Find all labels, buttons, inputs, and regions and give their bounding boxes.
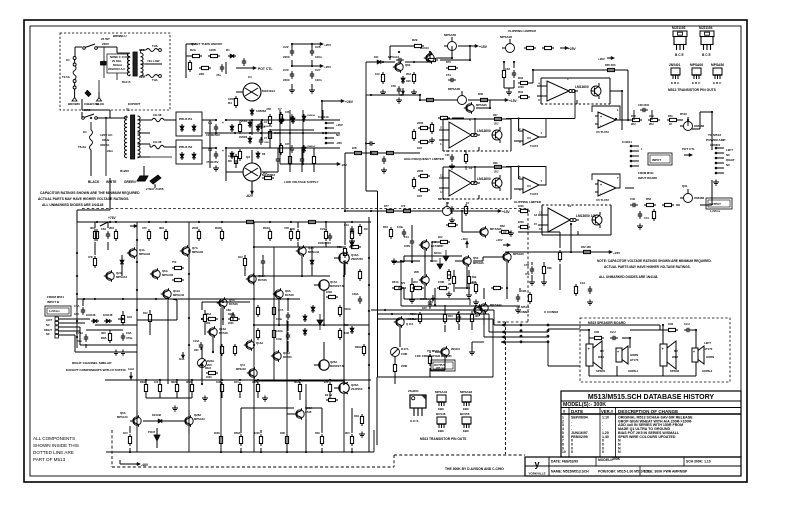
svg-text:NOTE: CAPACITOR VOLTAGE RATING: NOTE: CAPACITOR VOLTAGE RATINGS SHOWN AR… xyxy=(597,259,712,263)
lv right caps bot xyxy=(279,143,315,155)
svg-text:C2B: C2B xyxy=(521,289,526,293)
conn wire NC1 xyxy=(489,331,548,334)
pinouts caption xyxy=(668,88,717,92)
svg-text:R70: R70 xyxy=(446,60,451,64)
svg-text:2000: 2000 xyxy=(228,322,234,325)
svg-text:Q6A: Q6A xyxy=(162,269,168,273)
PSU filter cap C1 xyxy=(206,121,220,137)
svg-text:C38 2200: C38 2200 xyxy=(638,103,650,107)
input stage extra1 xyxy=(443,305,480,332)
chassis bond xyxy=(146,175,164,191)
svg-text:R62: R62 xyxy=(500,224,505,228)
svg-text:1N5: 1N5 xyxy=(406,79,411,83)
front misc xyxy=(429,100,490,143)
svg-text:MPSA06: MPSA06 xyxy=(476,103,487,107)
svg-text:2000: 2000 xyxy=(206,376,212,379)
svg-text:100: 100 xyxy=(375,72,380,76)
amp input bus xyxy=(77,298,300,300)
svg-text:G D S: G D S xyxy=(410,419,419,423)
speaker wiring xyxy=(580,325,696,376)
svg-text:LEFT: LEFT xyxy=(726,148,733,152)
right branch bus xyxy=(462,211,562,290)
right opamp B TL072 xyxy=(592,174,620,202)
svg-text:R31A: R31A xyxy=(410,312,417,316)
svg-text:2200: 2200 xyxy=(283,78,290,82)
PSU filter cap C2 xyxy=(206,148,218,164)
title block outline xyxy=(525,457,741,476)
svg-text:YORKVILLE: YORKVILLE xyxy=(528,472,545,476)
svg-text:Q11A: Q11A xyxy=(173,289,180,293)
fuse F2 zigzag xyxy=(78,117,93,176)
front Q61 transistor xyxy=(420,46,434,64)
amp diode pair xyxy=(86,313,113,323)
svg-text:1000: 1000 xyxy=(264,142,270,144)
svg-text:Q 114: Q 114 xyxy=(406,322,414,326)
clip lim Q21 xyxy=(500,35,515,53)
svg-text:BC546: BC546 xyxy=(285,293,294,297)
svg-text:BA5C1: BA5C1 xyxy=(430,260,438,263)
clip lim +15V arrow xyxy=(458,44,488,49)
clip limiter 2 label xyxy=(514,200,542,204)
svg-text:1K2: 1K2 xyxy=(238,255,243,259)
hf2 fb resistor xyxy=(474,162,506,183)
svg-text:100n: 100n xyxy=(315,78,322,82)
transformer T1 labels xyxy=(100,108,130,173)
hf limiter input transistor Q22 xyxy=(448,87,467,105)
svg-text:MPSA06: MPSA06 xyxy=(473,261,484,265)
svg-text:R51A: R51A xyxy=(392,280,399,284)
svg-text:MOSFET B: MOSFET B xyxy=(330,284,344,288)
svg-text:R6: R6 xyxy=(228,159,232,163)
transistor Q3A xyxy=(296,245,320,256)
svg-text:C CONN3: C CONN3 xyxy=(544,310,558,314)
hf mid rail parts xyxy=(384,204,413,213)
svg-text:230/240V A.C: 230/240V A.C xyxy=(108,67,125,71)
svg-text:2200: 2200 xyxy=(283,55,290,59)
LV supply components row xyxy=(266,107,295,126)
svg-text:ACTUAL PARTS MAY HAVE HIGHER V: ACTUAL PARTS MAY HAVE HIGHER VOLTAGE RAT… xyxy=(38,197,129,201)
svg-text:180: 180 xyxy=(74,312,79,316)
m513 boundary vertical xyxy=(505,322,507,454)
amp out bus y310 xyxy=(371,309,494,311)
speaker board title xyxy=(588,321,626,325)
svg-text:C40: C40 xyxy=(630,197,636,201)
svg-text:17: 17 xyxy=(539,211,543,215)
svg-text:R26A: R26A xyxy=(205,313,211,316)
amp gnds mid xyxy=(113,350,126,356)
svg-text:100/25V: 100/25V xyxy=(264,126,273,128)
svg-text:1N4148: 1N4148 xyxy=(103,313,113,317)
transistor Q4A xyxy=(127,247,151,258)
amp top row caps xyxy=(318,227,354,245)
svg-text:230V: 230V xyxy=(102,42,109,46)
svg-text:+26V: +26V xyxy=(336,123,343,127)
svg-text:300K: 300K xyxy=(612,457,621,461)
svg-text:PBU4 B2: PBU4 B2 xyxy=(179,145,192,149)
mov block xyxy=(101,60,107,78)
svg-text:10R: 10R xyxy=(344,331,349,335)
package TO-247 2SJ/2SK xyxy=(408,389,426,423)
svg-text:R35 2K3: R35 2K3 xyxy=(605,63,616,67)
svg-text:SPKR WIRE COLOURS UPDATED: SPKR WIRE COLOURS UPDATED xyxy=(618,435,676,439)
database history table outer xyxy=(561,391,741,457)
svg-text:R49: R49 xyxy=(354,414,359,418)
right B wires xyxy=(625,180,712,205)
rail caps grounds xyxy=(289,44,315,93)
svg-text:R 27A: R 27A xyxy=(401,347,409,351)
svg-text:OUTPUT: OUTPUT xyxy=(709,202,721,206)
svg-text:R38: R38 xyxy=(493,162,498,165)
svg-text:2K0: 2K0 xyxy=(109,226,115,230)
amp extra parts 1 xyxy=(88,220,328,324)
svg-text:1K0: 1K0 xyxy=(123,431,128,435)
bridge rectifier B2 box xyxy=(176,140,202,164)
svg-text:U5 TL072: U5 TL072 xyxy=(596,198,609,202)
svg-text:MPSA93: MPSA93 xyxy=(192,250,204,254)
database history title row xyxy=(561,394,741,401)
limiter output to spine xyxy=(392,256,462,262)
svg-text:B C E: B C E xyxy=(675,53,685,57)
power switch SW2 xyxy=(82,108,127,119)
svg-text:Q2A: Q2A xyxy=(116,271,122,275)
amp mid bus y302 xyxy=(201,301,250,320)
right branch transistor Q54 xyxy=(478,224,511,238)
right jfet Q31 xyxy=(680,184,705,203)
svg-text:2000: 2000 xyxy=(214,431,220,435)
svg-text:R34: R34 xyxy=(518,90,524,94)
rail arrow +25V top xyxy=(292,42,331,47)
amp rail x168 xyxy=(167,300,169,380)
svg-text:EXPORT: EXPORT xyxy=(128,102,141,106)
transistor Q2A xyxy=(104,270,128,281)
svg-text:+36V: +36V xyxy=(461,237,468,241)
svg-text:C22: C22 xyxy=(283,45,289,49)
rail 153 parts xyxy=(352,146,387,173)
speaker SPK1 woofer xyxy=(586,341,606,373)
svg-text:SCH 300K: 1.10: SCH 300K: 1.10 xyxy=(686,460,711,464)
amp lower q row Q29A xyxy=(294,406,312,420)
svg-text:T2.5A: T2.5A xyxy=(62,75,71,79)
svg-text:3mA: 3mA xyxy=(179,357,185,361)
front top wires xyxy=(366,46,452,63)
svg-text:K1: K1 xyxy=(66,58,70,62)
amp mid extra res row xyxy=(205,313,240,325)
svg-text:220: 220 xyxy=(324,380,329,384)
package TO-92 MPSA93 xyxy=(460,390,472,411)
svg-text:10: 10 xyxy=(562,450,566,454)
Q2 LV transistor xyxy=(236,155,275,181)
svg-text:POT CTL: POT CTL xyxy=(682,147,695,151)
svg-text:220R: 220R xyxy=(326,291,332,294)
LV out caps xyxy=(276,154,316,166)
svg-text:10000/50V: 10000/50V xyxy=(206,133,220,137)
input +36V arrow xyxy=(461,237,469,248)
svg-text:+25V: +25V xyxy=(568,47,577,51)
svg-text:NC: NC xyxy=(46,332,50,336)
mains labels top xyxy=(101,34,127,46)
svg-text:PBU4 B1: PBU4 B1 xyxy=(179,117,192,121)
hf2 caps bottom xyxy=(449,204,468,223)
svg-text:THA: THA xyxy=(152,78,158,82)
svg-text:RED: RED xyxy=(139,48,145,52)
1mA arrow xyxy=(128,367,135,380)
table column lines xyxy=(569,408,616,458)
svg-text:RED: RED xyxy=(139,75,145,79)
svg-text:1000: 1000 xyxy=(228,154,235,158)
amp mid extra q xyxy=(236,364,257,379)
svg-text:R29: R29 xyxy=(412,38,418,42)
svg-text:2K2: 2K2 xyxy=(263,173,268,175)
hf2 input resistors xyxy=(412,169,430,198)
svg-text:1N5363: 1N5363 xyxy=(398,288,407,290)
svg-text:VER.#: VER.# xyxy=(601,409,614,414)
svg-text:2200: 2200 xyxy=(518,204,524,208)
svg-text:C30A: C30A xyxy=(352,292,359,296)
svg-text:HT170: HT170 xyxy=(630,358,639,362)
Q1 zener xyxy=(250,108,267,116)
svg-text:2K2: 2K2 xyxy=(406,72,411,76)
input rail wires xyxy=(404,288,520,305)
q2 collector wire xyxy=(251,150,253,163)
svg-text:47u: 47u xyxy=(525,272,530,276)
bridge rectifier B1 box xyxy=(176,112,202,136)
lv supply bottom wires xyxy=(226,148,314,181)
svg-text:2200: 2200 xyxy=(518,85,524,89)
header row xyxy=(561,409,741,414)
right jfet Q30 xyxy=(680,112,705,131)
hf2 bottom pin labels xyxy=(446,201,470,205)
svg-text:300VA: 300VA xyxy=(100,143,110,147)
svg-text:R12: R12 xyxy=(143,311,148,315)
transistor Q6A xyxy=(150,268,174,279)
svg-text:CLIPPING LIMITER: CLIPPING LIMITER xyxy=(508,29,537,33)
svg-text:150R: 150R xyxy=(401,352,407,356)
svg-text:BC546: BC546 xyxy=(436,412,446,416)
amp feedback wires xyxy=(77,256,344,384)
svg-text:Q15A: Q15A xyxy=(283,351,290,355)
conn wire OUT xyxy=(494,324,548,327)
svg-text:WHITE: WHITE xyxy=(106,180,117,184)
svg-text:-0.6V: -0.6V xyxy=(427,300,433,304)
quiet turn-on parts row2 xyxy=(188,60,224,77)
pinout caption bottom xyxy=(420,437,467,441)
mains terminal labels xyxy=(68,102,141,106)
svg-text:-48V: -48V xyxy=(398,93,404,97)
svg-text:2N5401: 2N5401 xyxy=(451,347,461,351)
left conn wires to amp xyxy=(59,319,136,352)
pot ctl arrow xyxy=(236,66,272,71)
quiet turn-on parts row1 xyxy=(190,48,246,66)
svg-text:120V AC: 120V AC xyxy=(100,133,113,137)
T1 secondary leads xyxy=(138,120,151,157)
transistor Q5A xyxy=(217,297,238,308)
svg-text:1N4148: 1N4148 xyxy=(86,313,96,317)
svg-text:LEFT: LEFT xyxy=(46,318,53,322)
svg-text:MPSA06: MPSA06 xyxy=(690,63,703,67)
svg-text:Q14A: Q14A xyxy=(256,341,263,345)
svg-text:U4: U4 xyxy=(527,184,531,188)
svg-text:DATE: FEB/02/99: DATE: FEB/02/99 xyxy=(551,460,578,464)
svg-text:22K: 22K xyxy=(352,146,357,150)
lv bottom rail xyxy=(280,162,347,167)
transistor Q15A xyxy=(271,350,292,361)
svg-text:BA013: BA013 xyxy=(420,46,429,50)
svg-text:R52: R52 xyxy=(646,197,652,201)
svg-text:C10011: C10011 xyxy=(622,140,632,144)
svg-text:+: + xyxy=(617,350,619,354)
svg-text:C8A: C8A xyxy=(226,308,231,312)
svg-text:100N: 100N xyxy=(404,245,410,248)
svg-text:R67: R67 xyxy=(439,245,444,248)
amp mid bus4 xyxy=(254,380,344,382)
vi limiter Q41 xyxy=(394,316,415,327)
svg-text:1M: 1M xyxy=(448,284,451,286)
svg-text:Q50: Q50 xyxy=(473,256,479,260)
svg-text:GREEN: GREEN xyxy=(124,180,136,184)
amp rail x369 xyxy=(368,217,370,452)
amp left rail xyxy=(76,222,78,348)
svg-text:1N5363: 1N5363 xyxy=(239,137,248,139)
front bus up xyxy=(366,55,411,97)
svg-text:C23: C23 xyxy=(283,68,289,72)
svg-text:2K0: 2K0 xyxy=(413,280,418,284)
amp emitter wires xyxy=(146,380,330,400)
right opamp A out row xyxy=(616,103,683,126)
svg-text:2000: 2000 xyxy=(192,226,199,230)
mains transformer primary xyxy=(117,53,130,76)
svg-text:C546: C546 xyxy=(305,410,312,414)
svg-text:MPSA13: MPSA13 xyxy=(117,415,128,419)
title row2 cells xyxy=(551,466,688,476)
svg-text:68R: 68R xyxy=(290,227,295,231)
amp lower q row Q6A xyxy=(117,411,141,427)
svg-text:10R: 10R xyxy=(594,330,599,334)
svg-text:2200: 2200 xyxy=(417,169,424,173)
svg-text:Q3A: Q3A xyxy=(308,246,314,250)
svg-text:R77: R77 xyxy=(384,204,389,208)
svg-text:2K2: 2K2 xyxy=(631,122,636,126)
-62V arrow bottom xyxy=(246,181,254,198)
svg-text:MPSA43: MPSA43 xyxy=(308,250,320,254)
output boxed label mid xyxy=(431,360,455,371)
bus bottom return xyxy=(377,376,493,378)
spk network 2 xyxy=(666,322,692,332)
svg-text:TL072: TL072 xyxy=(530,144,538,148)
bus right edge xyxy=(492,319,494,377)
svg-text:TITLE: 300K PWR AMP/BSP: TITLE: 300K PWR AMP/BSP xyxy=(643,470,688,474)
svg-text:K1: K1 xyxy=(83,130,87,134)
amp top bus +76V xyxy=(77,216,371,228)
svg-text:0: 0 xyxy=(571,450,573,454)
bleeder R, diode pair xyxy=(230,122,242,161)
clip lim feed resistors xyxy=(518,76,530,99)
input -0.6V arrow xyxy=(427,295,435,304)
svg-text:2SJP250: 2SJP250 xyxy=(351,387,363,391)
vi limiter current src xyxy=(391,347,409,357)
amp out bus y314 xyxy=(377,313,489,315)
svg-text:60Hz: 60Hz xyxy=(102,138,110,142)
amp top row resistors xyxy=(90,226,293,241)
svg-text:R42 16K: R42 16K xyxy=(581,245,591,249)
amp rail x287 xyxy=(286,320,288,452)
svg-text:M513/M515.SCH DATABASE HISTORY: M513/M515.SCH DATABASE HISTORY xyxy=(588,394,714,401)
svg-text:C44: C44 xyxy=(404,235,409,239)
svg-text:R56A: R56A xyxy=(234,431,241,435)
transformer T1 secondary xyxy=(138,116,141,158)
svg-text:11: 11 xyxy=(568,204,572,208)
hf2 aux opamp U4B xyxy=(506,165,546,196)
svg-text:BC556: BC556 xyxy=(460,412,470,416)
left input conn wires xyxy=(77,178,110,222)
mid right rail parts xyxy=(574,281,593,305)
choke L1 xyxy=(150,113,172,122)
svg-text:C51: C51 xyxy=(446,73,451,77)
conn4 gnd xyxy=(713,180,719,186)
PSU earth lug xyxy=(137,166,148,181)
svg-text:BC546: BC546 xyxy=(229,302,238,306)
lv right caps top xyxy=(279,112,315,124)
to m513 power amp text xyxy=(706,133,726,142)
amp q11 loop xyxy=(137,299,185,361)
svg-text:+15V: +15V xyxy=(509,99,518,103)
amp bottom bus xyxy=(105,379,371,381)
svg-text:-26V: -26V xyxy=(341,163,347,167)
svg-text:Q4A: Q4A xyxy=(139,248,145,252)
svg-text:+26V: +26V xyxy=(613,251,620,255)
svg-text:1K0: 1K0 xyxy=(127,315,133,319)
mains transformer core xyxy=(133,52,137,76)
svg-text:CAPACITOR RATINGS SHOWN ARE TH: CAPACITOR RATINGS SHOWN ARE THE MINIMUM … xyxy=(40,191,140,195)
svg-text:12: 12 xyxy=(469,166,473,170)
fuse breaker chain K1 xyxy=(62,57,76,96)
svg-text:100K: 100K xyxy=(209,48,217,52)
svg-text:2N5401: 2N5401 xyxy=(669,63,681,67)
spine caps col xyxy=(344,223,368,248)
amp mid extra res xyxy=(205,367,218,379)
svg-text:1N0: 1N0 xyxy=(194,349,199,352)
svg-text:1.2Vrms: 1.2Vrms xyxy=(710,209,721,213)
svg-text:2200: 2200 xyxy=(417,121,424,125)
amp mid res col xyxy=(338,305,365,356)
svg-text:INPUT B: INPUT B xyxy=(47,300,60,304)
svg-text:+26V: +26V xyxy=(496,238,503,242)
svg-text:MPSA43: MPSA43 xyxy=(194,417,205,421)
svg-text:Q9A: Q9A xyxy=(285,289,291,293)
svg-text:CONN4: CONN4 xyxy=(710,143,721,147)
svg-text:BLUE: BLUE xyxy=(96,102,104,106)
svg-text:Q6A: Q6A xyxy=(120,411,126,415)
svg-text:D11: D11 xyxy=(374,55,379,59)
svg-text:+15V: +15V xyxy=(479,45,488,49)
vi limiter res2 xyxy=(393,362,407,374)
opamp U1 OTA block xyxy=(537,77,610,104)
svg-text:MJ21194: MJ21194 xyxy=(262,89,275,93)
svg-text:R2 1A: R2 1A xyxy=(325,393,332,397)
svg-text:INPUT: INPUT xyxy=(652,158,661,162)
output mosfet Q26A xyxy=(334,382,363,394)
conn gnd stub xyxy=(469,342,484,355)
svg-text:WF2: WF2 xyxy=(672,355,678,359)
svg-text:R30: R30 xyxy=(447,275,452,277)
clip lim input cap xyxy=(502,62,516,95)
package TO-92 MPSA56 xyxy=(711,63,724,85)
svg-text:0: 0 xyxy=(602,450,604,454)
svg-text:+25V: +25V xyxy=(324,43,331,47)
svg-text:MPSA06: MPSA06 xyxy=(438,197,450,201)
svg-text:100n: 100n xyxy=(276,337,282,341)
svg-text:NAME: M515/M513.SCH: NAME: M515/M513.SCH xyxy=(551,470,589,474)
svg-text:Q7A: Q7A xyxy=(192,246,198,250)
